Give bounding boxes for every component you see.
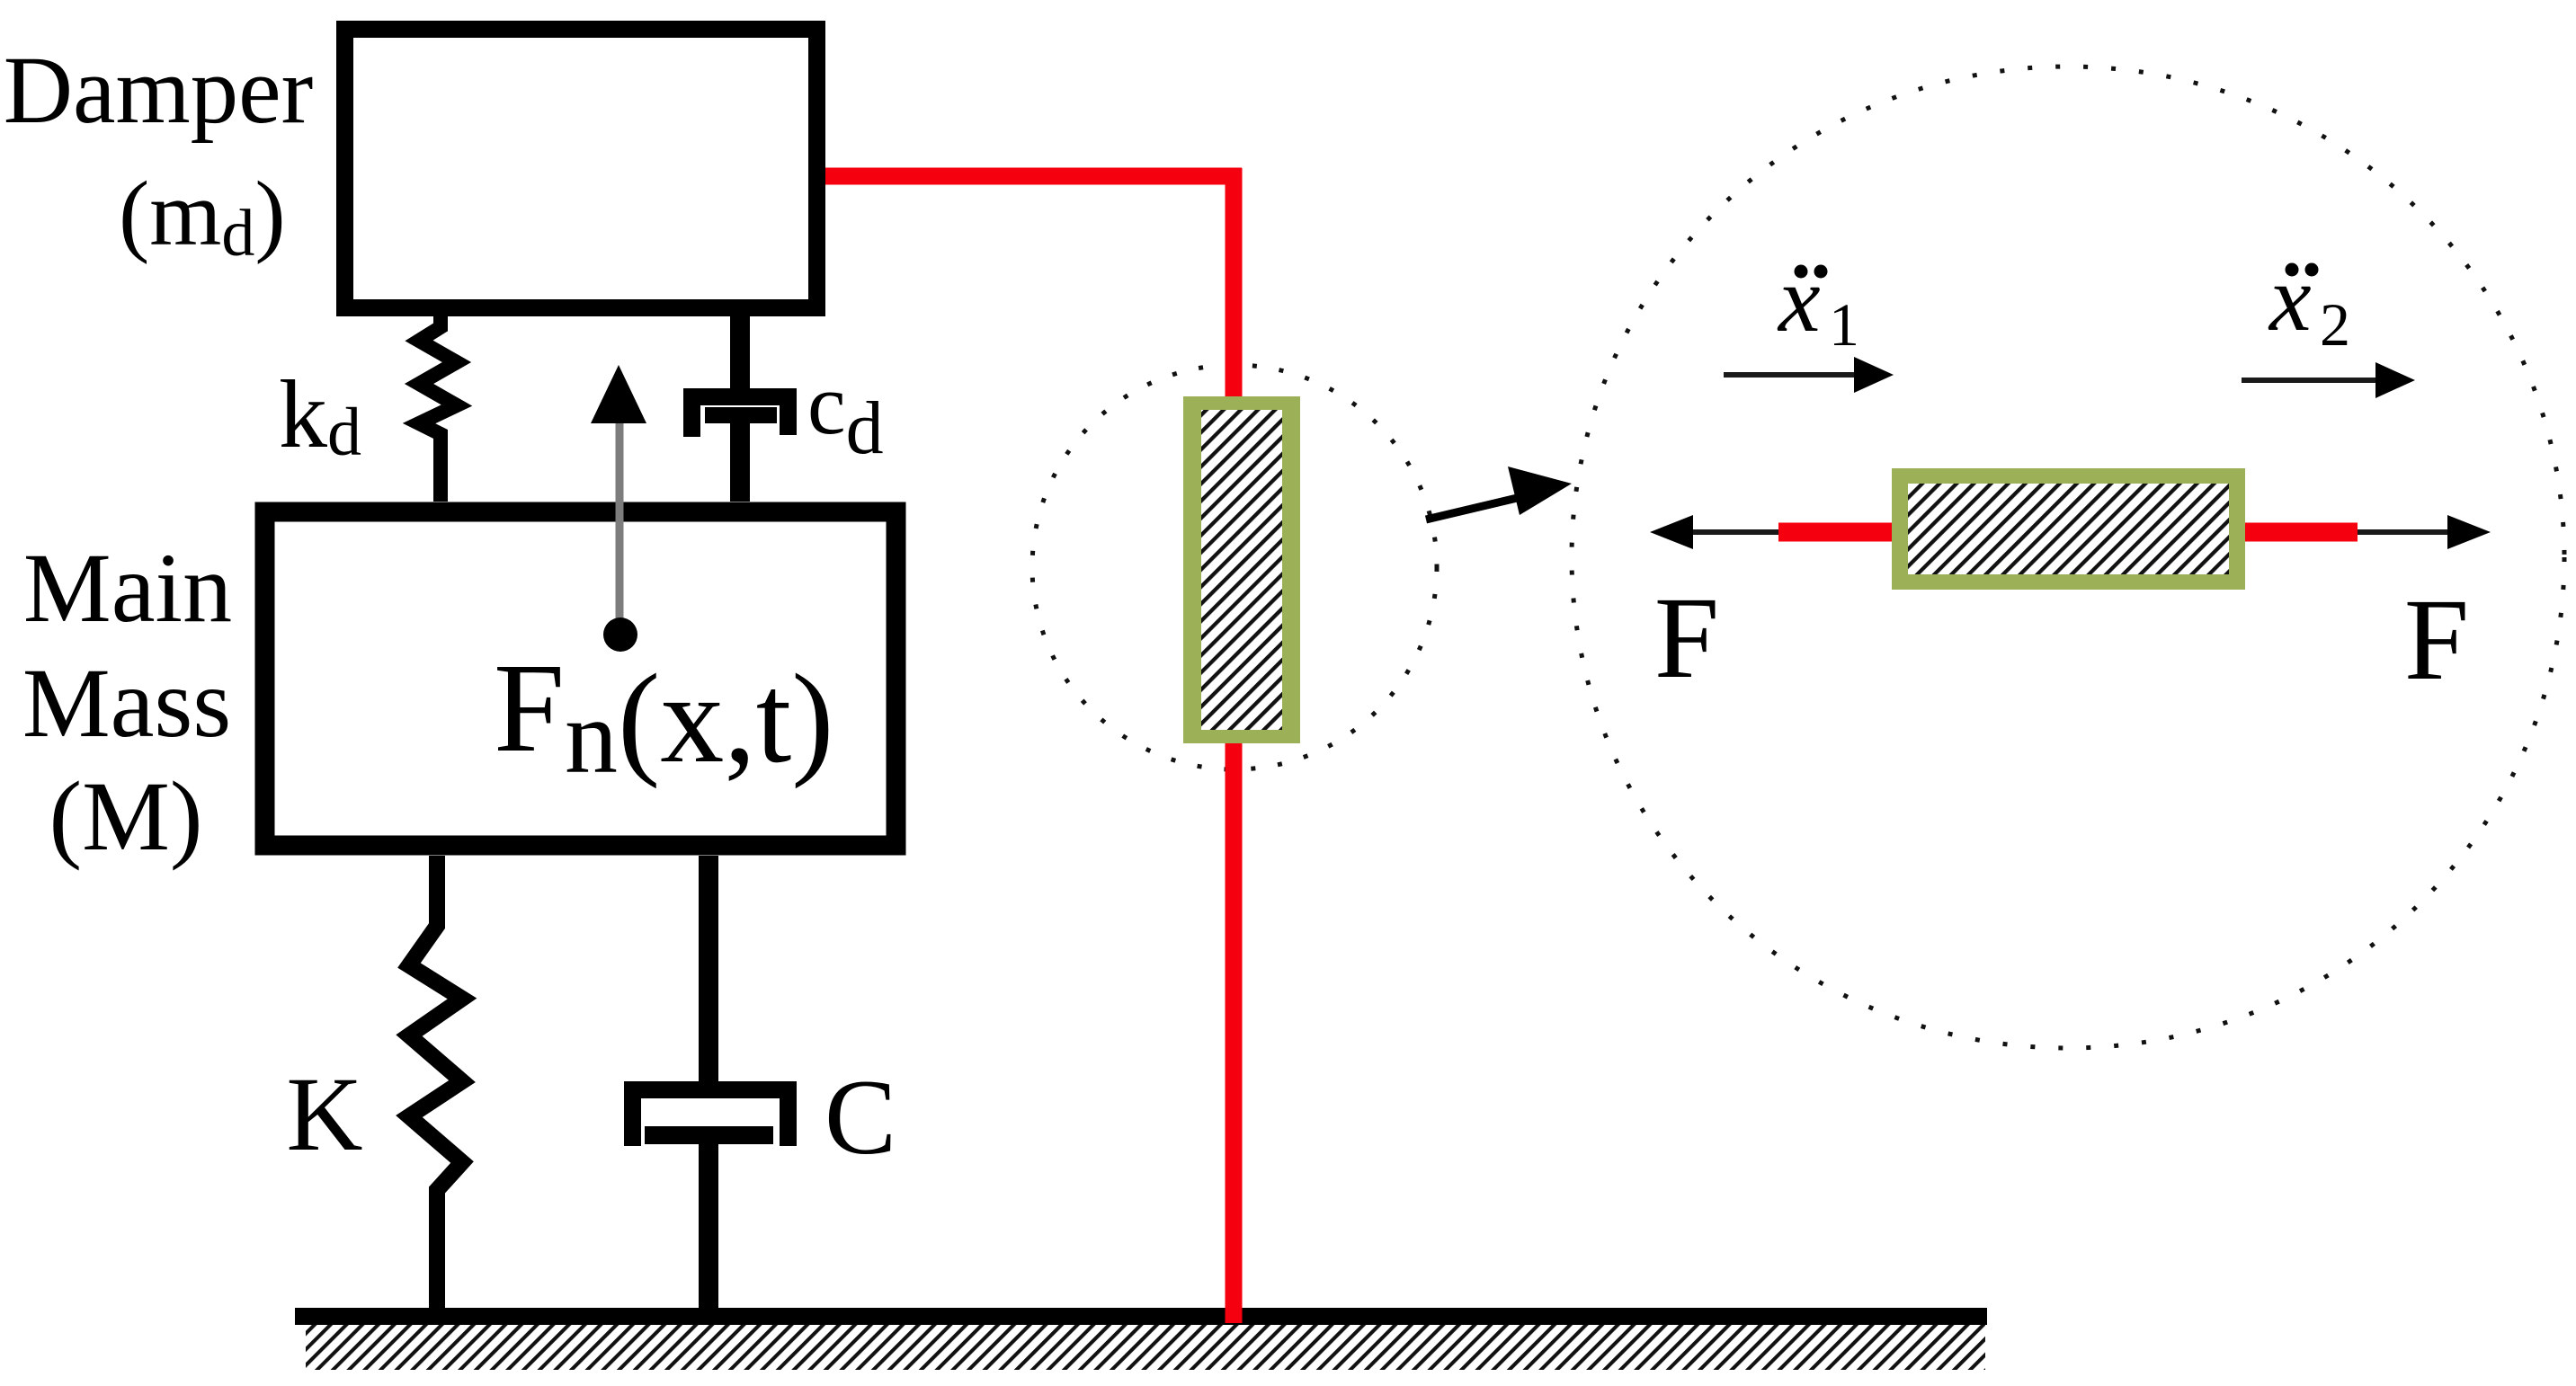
- spring kd: [419, 316, 457, 502]
- svg-text:x: x: [2268, 245, 2312, 351]
- damper C: cup (inverted U): [633, 1090, 789, 1147]
- ground line: [295, 1308, 1987, 1325]
- svg-text:Mass: Mass: [22, 648, 231, 758]
- svg-text:1: 1: [1829, 290, 1859, 359]
- red wire vertical lower segment: [1226, 735, 1243, 1323]
- red wire horizontal from damper mass to vertical drop: [816, 168, 1242, 185]
- force line F (thin, with arrowheads both sides): [1662, 529, 2482, 535]
- mass block: Main Mass (M): [265, 512, 896, 846]
- acceleration arrow x2: [2242, 378, 2379, 383]
- svg-text:Main: Main: [23, 533, 232, 643]
- damper cd: top rod: [730, 316, 750, 399]
- svg-text:(M): (M): [49, 761, 202, 871]
- SMA wire element: hatched core: [1201, 410, 1282, 730]
- svg-text:Fn(x,t): Fn(x,t): [494, 636, 834, 795]
- damper C: top rod: [699, 856, 718, 1085]
- SMA wire element (horizontal, large): green frame: [1892, 468, 2245, 590]
- svg-text:K: K: [286, 1055, 362, 1173]
- dotted circle (small, zoom source): [1032, 365, 1437, 769]
- svg-text:2: 2: [2320, 290, 2350, 359]
- red wire right segment: [2237, 523, 2358, 542]
- damper cd: bottom rod: [730, 423, 750, 502]
- damper C: bottom rod: [699, 1144, 718, 1309]
- force arrow Fn: gray shaft: [616, 419, 624, 635]
- SMA wire element (horizontal): hatched core: [1908, 484, 2229, 574]
- force arrow Fn: black arrowhead: [591, 365, 646, 423]
- svg-text:Damper: Damper: [4, 38, 314, 144]
- svg-text:F: F: [2404, 575, 2469, 705]
- svg-text:x: x: [1777, 246, 1821, 351]
- zoom arrow: [1426, 495, 1529, 520]
- ground hatch: [306, 1325, 1985, 1370]
- red wire vertical upper segment: [1226, 168, 1243, 406]
- damper C: piston plate: [645, 1126, 773, 1144]
- spring K: [409, 856, 462, 1309]
- svg-text:C: C: [824, 1057, 896, 1177]
- SMA wire element (vertical, small circle): green frame: [1183, 396, 1300, 743]
- force application dot: [603, 617, 637, 652]
- damper cd: cup (inverted U): [692, 397, 789, 438]
- svg-text:(md): (md): [119, 163, 286, 271]
- mass block: Damper (md): [345, 30, 817, 308]
- dotted circle (large, zoomed view): [1572, 67, 2564, 1048]
- red wire left segment: [1778, 523, 1899, 542]
- damper cd: piston plate: [705, 407, 777, 423]
- acceleration arrow x1: [1724, 372, 1858, 378]
- svg-text:F: F: [1654, 573, 1719, 703]
